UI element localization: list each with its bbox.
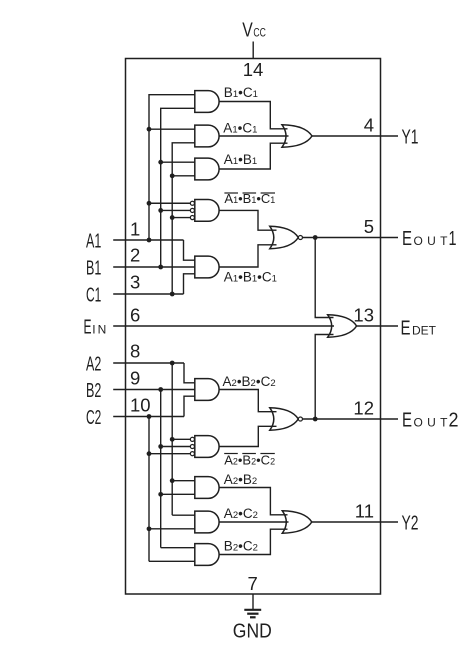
svg-text:Y2: Y2 [402,513,419,535]
wire U11 out to OR2 [219,488,287,515]
wire pin2 B1 to gate [113,266,195,268]
wire C2 to AND9 stub [149,528,195,530]
svg-text:B1: B1 [86,258,101,280]
svg-text:E: E [402,228,412,250]
wire EOUT1 to EDET [315,238,333,318]
label Abar2.Bbar2.Cbar2 [224,453,275,468]
GND pin 7 lead wire [252,594,254,610]
wire U13 out to OR2 [219,529,287,554]
wire A2 to invAND2 stub [172,438,190,440]
AND gate U12 A2.C2 [195,511,219,533]
VCC label [242,20,266,42]
label Abar1.Bbar1.Cbar1 [224,191,275,206]
AND gate U13 B2.C2 [195,544,219,566]
wire riser C1 [172,143,195,294]
junction EOUT1 [313,235,318,240]
junction pin2 B1 [158,265,163,270]
wire pin1 A1 to jog [113,239,183,241]
wire riser B1 [161,108,195,267]
junction A1-AND2 [147,127,152,132]
junction pin8 A2 [170,361,175,366]
wire A2 jog to AND6 [184,363,195,383]
wire C1 jog to AND4 [184,274,195,294]
svg-text:9: 9 [130,368,140,389]
svg-text:DET: DET [412,323,437,337]
ground symbol [244,610,261,618]
junction C2-invAND2 [147,451,152,456]
junction pin9 B2 [158,387,163,392]
IC package outline [126,59,381,595]
AND gate U1 B1.C1 [195,91,219,113]
wire C1 to invAND1 stub [172,217,190,219]
wire U12 out to OR2 [219,521,288,523]
U14 output bubble [298,417,302,421]
wire riser A2 [171,363,173,515]
wire EOUT2 to EDET [315,335,333,420]
AND gate U5 A1.B1.C1 [195,256,219,278]
wire EDET out pin 13 [357,325,398,327]
svg-text:CC: CC [253,26,266,40]
junction A2-AND8 [170,478,175,483]
svg-text:12: 12 [353,398,374,419]
U10 input bubbles [190,437,194,455]
svg-text:10: 10 [130,395,151,416]
svg-text:C1: C1 [86,285,101,307]
OR gate U6 Y1 [282,125,312,147]
svg-text:E: E [401,317,411,339]
svg-text:13: 13 [353,305,374,326]
wire pin10 C2 to jog [113,416,184,418]
wire B2 stub AND10 [161,547,195,549]
svg-text:A2•B2•C2: A2•B2•C2 [224,453,275,468]
svg-text:A1: A1 [86,231,101,253]
wire riser B2 [160,390,162,548]
wire U3 out to OR1 [219,143,287,169]
AND gate U9 A2.B2.C2 [195,379,219,401]
svg-text:3: 3 [130,272,140,293]
AND gate U4 inverted inputs [195,200,219,222]
junction A1-invAND1 [147,201,152,206]
wire U9 out to NOR2 [219,390,276,412]
input EIN label [84,316,107,338]
AND gate U2 A1.C1 [195,125,219,147]
svg-text:8: 8 [130,341,140,362]
svg-text:V: V [242,20,253,42]
wire U2 out to OR1 [219,135,288,137]
svg-text:OUT: OUT [414,416,449,430]
svg-text:B2: B2 [86,380,101,402]
wire B2 to AND8 stub [161,493,195,495]
svg-text:OUT: OUT [414,234,449,248]
svg-text:1: 1 [130,219,140,240]
svg-text:E: E [402,410,412,432]
wire EOUT2 out pin 12 [303,418,398,420]
junction B2-AND8 [158,492,163,497]
svg-text:1: 1 [449,228,457,250]
wire riser C2 [148,417,150,562]
wire C2 stub AND10 [149,560,195,562]
wire U4 out to NOR1 [219,210,276,230]
wire pin9 B2 to gate [113,389,195,391]
junction B1-AND3 [158,160,163,165]
junction EOUT2 [313,417,318,422]
wire Y1 out pin 4 [312,135,398,137]
wire pin3 C1 to jog [113,293,183,295]
NOR gate U7 EOUT1 [270,226,299,248]
junction A2-invAND2 [170,437,175,442]
svg-text:14: 14 [243,59,264,80]
U7 output bubble [298,235,302,239]
junction pin1 A1 [147,238,152,243]
svg-text:5: 5 [364,216,374,237]
AND gate U10 inverted inputs [195,436,219,458]
svg-text:A2•B2•C2: A2•B2•C2 [223,374,276,389]
svg-text:11: 11 [355,501,374,522]
wire EOUT1 out pin 5 [303,237,398,239]
output EDET label [401,317,437,339]
wire A2 stub AND7 [172,514,195,516]
wire riser A1 [149,95,195,240]
output EOUT2 label [402,410,459,432]
wire B1 to AND3 stub [161,161,195,163]
junction pin10 C2 [147,414,152,419]
wire B1 to invAND1 stub [161,209,190,211]
junction B2-invAND2 [158,444,163,449]
svg-text:6: 6 [130,305,140,326]
wire C2 jog to AND6 [184,396,195,416]
wire A1 to invAND1 stub [149,202,190,204]
svg-text:A1•B1•C1: A1•B1•C1 [224,270,277,285]
junction pin3 C1 [170,292,175,297]
wire U1 out to OR1 [219,102,287,129]
OR gate U15 Y2 [282,511,312,533]
svg-text:Y1: Y1 [402,127,419,149]
VCC pin 14 lead wire [252,42,254,59]
svg-text:GND: GND [233,620,272,642]
svg-text:2: 2 [449,410,459,432]
junction C1-AND3 [170,173,175,178]
U4 input bubbles [190,201,194,219]
junction B1-invAND1 [158,208,163,213]
svg-text:7: 7 [248,573,258,594]
wire C1 to AND3 stub [172,175,195,177]
svg-text:C2: C2 [86,407,101,429]
wire U5 out to NOR1 [219,245,276,267]
wire A2 to AND8 stub [172,480,195,482]
wire A1 to AND2 stub [149,128,195,130]
svg-text:4: 4 [364,115,374,136]
wire B2 to invAND2 stub [161,446,190,448]
junction C2-AND9 [147,526,152,531]
wire A1 jog to AND4 [184,240,195,260]
svg-text:IN: IN [92,322,106,336]
wire C2 to invAND2 stub [149,453,190,455]
output EOUT1 label [402,228,457,250]
AND gate U3 A1.B1 [195,158,219,180]
wire U10 out to NOR2 [219,426,276,446]
OR gate U8 EDET [328,315,357,337]
AND gate U11 A2.B2 [195,477,219,499]
junction C1-invAND1 [170,215,175,220]
wire Y2 out pin 11 [312,521,398,523]
NOR gate U14 EOUT2 [270,408,299,430]
svg-text:E: E [84,316,92,338]
svg-text:2: 2 [130,245,140,266]
svg-text:A2: A2 [86,354,101,376]
wire pin6 EIN to EDET gate [113,325,334,327]
wire pin8 A2 to jog [113,362,184,364]
